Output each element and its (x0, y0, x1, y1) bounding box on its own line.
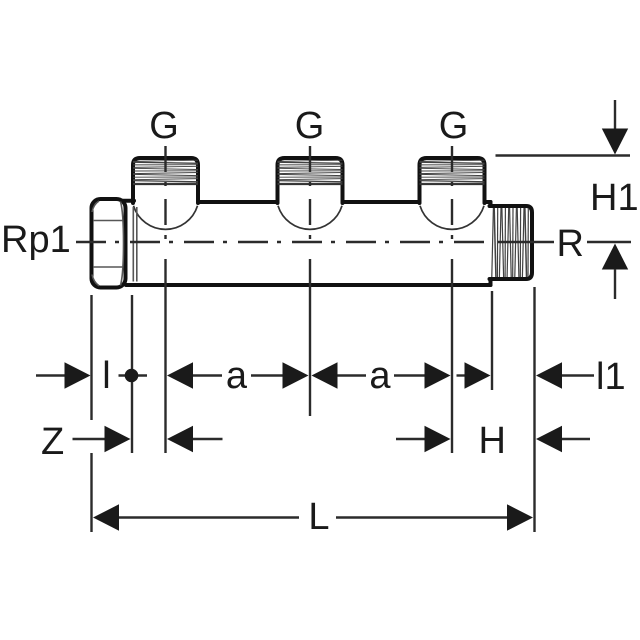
outlet 1 dome arc (134, 206, 198, 230)
dimension a second: right arrow (394, 374, 425, 376)
label R (557, 223, 584, 265)
outlet 3 threaded stub G (420, 158, 485, 203)
male threaded end R (490, 206, 533, 279)
dimension H left outside arrow (396, 438, 425, 440)
outlet 1 thread root line (133, 183, 198, 185)
hex union nut Rp1 (92, 199, 126, 288)
label G outlet 1 (114, 105, 214, 147)
outlet 2 thread hatching (278, 160, 343, 183)
label a second (330, 355, 430, 397)
label G outlet 3 (404, 105, 504, 147)
extension line nut shoulder (131, 295, 133, 453)
outlet 2 thread root line (278, 183, 343, 185)
dimension Z leader and arrow (73, 438, 106, 440)
outlet 1 threaded stub G (133, 158, 198, 203)
union ring between nut and body (132, 207, 134, 282)
outlet 3 centerline (451, 146, 453, 246)
male end thread hatching (492, 208, 529, 277)
dimension L left arrow (93, 504, 119, 530)
dot terminator at nut shoulder (119, 374, 148, 376)
dimension Z right outside arrow (167, 426, 193, 452)
outlet 1 thread hatching (133, 160, 198, 183)
label l (57, 355, 157, 397)
outlet 3 thread root line (420, 183, 485, 185)
dimension l arrow (36, 374, 66, 376)
label Z (41, 421, 64, 463)
dimension a first: right arrow (251, 374, 283, 376)
dimension H1 bottom arrow (602, 244, 628, 270)
extension line male thread start (491, 291, 493, 390)
label L (269, 496, 369, 538)
extension line right end face (533, 287, 535, 532)
dimension a first: left arrow (167, 362, 193, 388)
dimension a second: left arrow (312, 362, 338, 388)
dimension H right outside arrow (536, 426, 562, 452)
outlet 2 dome arc (278, 206, 342, 230)
label H (479, 420, 506, 462)
main horizontal centerline (76, 241, 490, 243)
label a first (187, 355, 287, 397)
label G outlet 2 (260, 105, 360, 147)
H1 reference line top of outlets (496, 154, 631, 156)
outlet 2 centerline (309, 146, 311, 246)
dimension l1 left outside arrow (457, 374, 466, 376)
extension line left end face (90, 295, 92, 420)
outlet 3 thread hatching (420, 160, 485, 183)
outlet 2 threaded stub G (278, 158, 343, 203)
dimension H1 top arrow (614, 100, 616, 130)
dimension L right arrow (336, 516, 508, 518)
outlet 1 centerline (164, 146, 166, 246)
label H1 (590, 177, 639, 219)
label l1 (596, 356, 626, 398)
hex nut facet lines (93, 220, 124, 222)
dimension l1 right outside arrow (536, 362, 562, 388)
centerline solid segment left of R (498, 241, 554, 243)
manifold body tube (135, 204, 489, 283)
label Rp1 (1, 219, 71, 261)
outlet 3 dome arc (420, 206, 484, 230)
centerline segment right of R (587, 241, 631, 243)
